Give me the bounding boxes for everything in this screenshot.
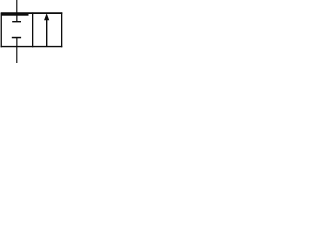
valve body: position divider <box>32 12 34 47</box>
blocked port stem (top T) <box>16 15 18 22</box>
valve body: bottom edge <box>1 46 63 48</box>
flow arrow shaft <box>46 20 48 47</box>
wire: bottom port line <box>16 47 18 64</box>
flow arrow head <box>44 13 49 20</box>
wire: top port line <box>16 0 18 14</box>
blocked port stem (bottom T) <box>16 38 18 47</box>
blocked port crossbar (top T) <box>12 21 21 22</box>
valve body: top edge <box>1 12 62 14</box>
blocked port crossbar (bottom T) <box>12 37 21 39</box>
blocked port: long crossbar under top edge <box>1 13 29 16</box>
valve body: right edge <box>61 12 63 47</box>
valve body: left edge <box>0 13 2 48</box>
